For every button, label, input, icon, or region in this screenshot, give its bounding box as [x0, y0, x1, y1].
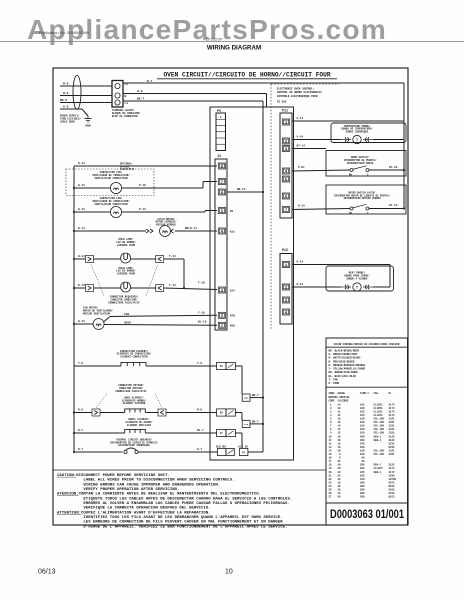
svg-text:20 20 245: 20 20 245 SEW-1 3172: [329, 471, 396, 474]
svg-text:O-7: O-7: [78, 429, 83, 432]
svg-text:O-14: O-14: [298, 204, 305, 207]
svg-text:1: 1: [220, 116, 222, 119]
svg-text:BK-7: BK-7: [252, 420, 259, 423]
meat probe RT2: [341, 286, 351, 288]
svg-text:16 8 90: 16 8 90: [329, 457, 395, 460]
svg-text:BK- BLACK/NEGRO/NOIR: BK- BLACK/NEGRO/NOIR: [329, 348, 360, 352]
svg-text:N: N: [125, 95, 127, 98]
header rule: [0, 41, 464, 43]
svg-text:DISJONCTEUR THERMIQUE: DISJONCTEUR THERMIQUE: [118, 444, 150, 447]
wire BK-14 to J3-6: [262, 191, 264, 193]
caution text block: [57, 474, 292, 530]
svg-text:T: T: [356, 286, 358, 290]
wire DLB IN to BK bus: [248, 451, 263, 453]
svg-text:V-14: V-14: [297, 135, 304, 138]
connector to lamp 2: [86, 285, 94, 292]
svg-text:W-14: W-14: [78, 255, 85, 258]
svg-text:O-7: O-7: [78, 448, 83, 451]
drawing number box: [326, 503, 408, 525]
svg-text:4 12 105 C: 4 12 105 CL1254 3173: [329, 414, 396, 417]
motor M4 fan: [93, 319, 104, 330]
svg-text:Publication No: 5995502999: Publication No: 5995502999: [39, 30, 90, 35]
J3 pin 1: [218, 322, 225, 328]
wire L1 black: [60, 102, 112, 104]
wire P11-2 to probe: [292, 139, 341, 141]
wire F10 to BK bus: [250, 423, 263, 425]
svg-text:W- WHITE/BLANCO/BLANC: W- WHITE/BLANCO/BLANC: [329, 356, 362, 360]
svg-text:O- ORANGE/NARANJA/ORANGE: O- ORANGE/NARANJA/ORANGE: [329, 363, 366, 367]
svg-text:GND: GND: [85, 125, 90, 128]
wire latch motor to J3-4: [175, 230, 217, 232]
J3 pin 6: [218, 189, 225, 195]
svg-text:7 14 150 C: 7 14 150 CXL-150 3321: [329, 425, 396, 428]
wire F2 to BK bus: [250, 397, 263, 399]
svg-text:Y- YELLOW/AMARILLO/JAUNE: Y- YELLOW/AMARILLO/JAUNE: [329, 367, 366, 371]
svg-text:DLB IN: DLB IN: [239, 445, 249, 448]
svg-text:J3: J3: [217, 154, 221, 158]
svg-text:ELEMENT CUISSON: ELEMENT CUISSON: [123, 402, 146, 405]
wire P12-2 to meat probe: [292, 286, 341, 288]
ground: [87, 116, 89, 119]
svg-text:Y-8: Y-8: [197, 362, 202, 365]
wire to thermal breaker: [73, 451, 75, 453]
svg-text:INTERRUPTEUR MOTEUR VERROU: INTERRUPTEUR MOTEUR VERROU: [343, 197, 381, 200]
svg-text:P-GY: P-GY: [298, 166, 305, 169]
electronic oven control board outline: [210, 107, 294, 460]
svg-text:LABEL ALL WIRES PRIOR TO DISCO: LABEL ALL WIRES PRIOR TO DISCONNECTION W…: [57, 479, 235, 483]
svg-text:CODE GAUGE TEMP,C: CODE GAUGE TEMP,C CSA UL: [329, 392, 393, 395]
wire to oven lamp 2: [73, 287, 75, 289]
svg-text:R-7: R-7: [147, 80, 153, 83]
svg-text:8 12 150 C: 8 12 150 CXL-150 3321: [329, 428, 396, 431]
J3 pin 4: [218, 228, 225, 234]
svg-text:O-14: O-14: [297, 283, 304, 286]
wire lamp 1 to junction: [164, 258, 184, 260]
svg-text:14 20 150: 14 20 150 CXL-150 3321: [329, 449, 396, 452]
caution separator: [53, 469, 326, 471]
wire bake element to relay: [166, 412, 217, 414]
svg-text:23 16 200: 23 16 200 5673: [329, 481, 396, 484]
motor M2 convection fan: [110, 206, 121, 217]
wire broil element to relay: [145, 432, 216, 434]
svg-text:R- RED/ROJO/ROUGE: R- RED/ROJO/ROUGE: [329, 359, 355, 363]
svg-text:WIRING SPECIAL: WIRING SPECIAL: [329, 396, 351, 399]
door switch S1: [350, 169, 353, 172]
svg-text:P- PINK: P- PINK: [329, 382, 340, 385]
thermal circuit breaker: [124, 450, 127, 453]
svg-text:CABLE HOSE: CABLE HOSE: [60, 120, 76, 123]
wire W-8 neutral into board: [123, 93, 267, 95]
svg-text:11 16 200: 11 16 200 SEW-1 3122: [329, 439, 396, 442]
fan motor low speed wire to J3-2: [104, 317, 111, 323]
svg-text:24 18 200: 24 18 200 8512: [329, 485, 396, 488]
wire P12-1 to meat probe: [292, 264, 390, 266]
svg-text:P6: P6: [217, 109, 221, 113]
svg-text:W-8: W-8: [137, 90, 143, 93]
svg-text:ERRORES AL VOLVER A ENSAMBLAR: ERRORES AL VOLVER A ENSAMBLAR LOS CABLES…: [57, 502, 290, 506]
svg-text:GY-14: GY-14: [389, 204, 398, 207]
svg-text:9 12 150 C: 9 12 150 CXL-150 3321: [329, 432, 396, 435]
svg-text:COLOR CODING/CODIGO DE COLORES: COLOR CODING/CODIGO DE COLORES/CODE COUL…: [334, 342, 400, 346]
svg-text:L2: L2: [125, 83, 129, 86]
svg-text:W-14: W-14: [78, 208, 85, 211]
EOC dashed boundary: [270, 84, 272, 330]
wire broil relay down to DLB: [235, 432, 242, 434]
wire to fan motor: [73, 323, 75, 325]
P12 pin 3: [282, 297, 289, 303]
svg-text:1 14 105 C: 1 14 105 CL1251 3173: [329, 403, 396, 406]
svg-text:3 11 105 C: 3 11 105 CL1251 3173: [329, 410, 396, 413]
svg-text:BK-7: BK-7: [252, 394, 259, 397]
wire to latch motor: [73, 230, 75, 232]
svg-text:BL- BLUE/AZUL/BLEU: BL- BLUE/AZUL/BLEU: [329, 374, 357, 378]
P11 pin 2: [282, 138, 289, 144]
meat probe enclosure: [326, 266, 394, 291]
wire lamps to J3-3: [183, 287, 185, 289]
P11 pin 3: [282, 146, 289, 152]
broil element: [125, 429, 146, 433]
svg-text:T-14: T-14: [169, 284, 176, 287]
svg-text:MOTEUR VERROU: MOTEUR VERROU: [156, 224, 176, 227]
svg-text:21 22 105: 21 22 105 3298: [329, 474, 396, 477]
svg-text:27 90 200: 27 90 200 8513: [329, 496, 396, 499]
svg-text:ATENCION:CORTAR LA CORRIENTE A: ATENCION:CORTAR LA CORRIENTE ANTES DE RE…: [57, 493, 261, 497]
P11 pin 4: [282, 168, 289, 174]
terminal block TB: [112, 81, 123, 108]
svg-text:INTERRUPTEUR PORTE: INTERRUPTEUR PORTE: [346, 162, 374, 165]
wire P11-4 to door switch: [292, 170, 350, 171]
J3 pin 8: [218, 163, 225, 169]
P11 pin 5: [282, 176, 289, 182]
svg-text:Y-8: Y-8: [78, 362, 83, 365]
svg-text:LES ERREURS DE CONNECTION DE F: LES ERREURS DE CONNECTION DE FILS PEUVEN…: [57, 521, 283, 525]
svg-text:T-14: T-14: [169, 255, 176, 258]
svg-text:BR- BROWN/CAFE/BRUN: BR- BROWN/CAFE/BRUN: [329, 370, 359, 374]
P12 pin 2: [282, 284, 289, 290]
svg-text:18 10 200: 18 10 200 SEW-1 3122: [329, 464, 396, 467]
svg-text:VERIFIQUE LA CORRECTA OPERACIO: VERIFIQUE LA CORRECTA OPERACION DESPUES …: [57, 507, 211, 511]
svg-text:GY-14: GY-14: [297, 145, 306, 148]
J3 pin 5: [218, 208, 225, 214]
wire door switch to L2 feed: [369, 169, 404, 171]
svg-text:ELEMENT GRILLOIR: ELEMENT GRILLOIR: [127, 424, 152, 427]
svg-text:P11: P11: [282, 109, 288, 113]
svg-text:P-16: P-16: [139, 184, 146, 187]
svg-text:K9: K9: [230, 210, 234, 213]
fan motor high speed wire to J3-1: [104, 324, 217, 327]
wire relay to fuse F2: [235, 365, 242, 367]
connector from lamp 2: [156, 285, 164, 292]
P12 pin 1: [282, 262, 289, 268]
svg-text:G-8: G-8: [63, 106, 69, 109]
svg-text:WIRING DIAGRAM: WIRING DIAGRAM: [207, 45, 261, 52]
temperature probe RT1: [341, 139, 351, 141]
svg-text:BK-7: BK-7: [137, 98, 144, 101]
svg-text:L1: L1: [125, 102, 129, 105]
svg-text:K11: K11: [230, 230, 235, 233]
svg-text:LUMIERE FOUR: LUMIERE FOUR: [117, 273, 136, 276]
svg-text:BK-8: BK-8: [60, 99, 67, 102]
svg-text:V-14: V-14: [297, 117, 304, 120]
svg-text:CONTROLE ELECTRONIQUE POUR: CONTROLE ELECTRONIQUE POUR: [277, 95, 318, 98]
wire P11-7 to latch switch: [292, 209, 350, 210]
wire to bake element: [73, 411, 75, 413]
svg-text:T- TAN: T- TAN: [329, 378, 339, 381]
motor M1 convection fan: [110, 182, 121, 193]
svg-text:K14: K14: [230, 289, 235, 292]
svg-text:BR/W-14: BR/W-14: [185, 226, 197, 230]
motor switch latch enclosure: [326, 185, 406, 214]
wire to convection fan 1: [73, 187, 75, 189]
wire to convection fan 2: [73, 211, 75, 213]
svg-text:2 10 105 C: 2 10 105 CL1251 3173: [329, 407, 396, 410]
svg-text:10 16 200: 10 16 200 SEW-1 3122: [329, 435, 396, 438]
svg-text:BLOC DE CONNEXION: BLOC DE CONNEXION: [112, 115, 138, 118]
wire R-7 L2 feed to right side: [123, 82, 404, 84]
svg-text:MOTEUR VENTILATEUR: MOTEUR VENTILATEUR: [83, 312, 111, 315]
wire L2 red: [60, 85, 112, 87]
svg-text:CONNECTEUR FACULTATIF: CONNECTEUR FACULTATIF: [108, 301, 140, 304]
svg-text:12 18 245: 12 18 245 5232: [329, 442, 396, 445]
convection element: [121, 362, 146, 366]
svg-text:T-16: T-16: [198, 281, 205, 284]
svg-text:VENTILATEUR CONVECTION: VENTILATEUR CONVECTION: [94, 203, 128, 206]
wire neutral white: [60, 95, 112, 97]
P11 pin 7: [282, 207, 289, 213]
svg-text:VERIFY PROPER OPERATION AFTER: VERIFY PROPER OPERATION AFTER SERVICING.: [57, 488, 179, 492]
J3 pin 2: [218, 312, 225, 318]
svg-text:ETIQUETE TODOS LOS CABLES ANTE: ETIQUETE TODOS LOS CABLES ANTES DE DESCO…: [57, 497, 292, 501]
svg-text:6 16 150 C: 6 16 150 CXL-150 3321: [329, 421, 396, 424]
neutral bus W-14: [73, 166, 75, 452]
svg-text:W-14: W-14: [78, 162, 85, 165]
fuse F10: [242, 420, 250, 427]
svg-text:SONDE THERMIQUE: SONDE THERMIQUE: [346, 131, 369, 134]
wire convection fan 1 to J3-7: [122, 187, 203, 189]
svg-text:CODE CALIBRE: CODE CALIBRE: [329, 400, 349, 403]
svg-text:W-14: W-14: [78, 227, 85, 230]
latch motor plug: [146, 229, 153, 233]
svg-text:W-8: W-8: [63, 92, 69, 95]
svg-text:VENTILATEUR CONVECTION: VENTILATEUR CONVECTION: [94, 177, 128, 180]
svg-text:22 22 150: 22 22 150 10798: [329, 478, 397, 481]
svg-text:CONNECTEUR FACULTATIF: CONNECTEUR FACULTATIF: [115, 390, 147, 393]
svg-text:ELECTRONIC OVEN CONTROL/: ELECTRONIC OVEN CONTROL/: [277, 87, 315, 91]
power cord strain relief: [73, 75, 81, 109]
svg-text:06/13: 06/13: [38, 569, 56, 576]
svg-text:DLB OUT: DLB OUT: [216, 445, 227, 448]
J3 pin 7: [218, 179, 225, 185]
svg-text:LOW: LOW: [124, 313, 129, 316]
relay K3 broil: [217, 429, 226, 436]
relay K2 bake: [217, 409, 226, 416]
svg-text:ELEMENT CONVECTION: ELEMENT CONVECTION: [120, 356, 148, 359]
P11 pin 1: [282, 119, 289, 125]
svg-text:ES 500: ES 500: [277, 101, 287, 104]
svg-text:R-8: R-8: [63, 83, 69, 86]
svg-text:17 62 90: 17 62 90: [329, 460, 395, 463]
svg-text:BK-14: BK-14: [237, 188, 246, 191]
diagram border frame: [53, 68, 408, 525]
connector from lamp 1: [156, 256, 164, 263]
svg-text:P12: P12: [282, 248, 288, 252]
svg-text:26 14 200: 26 14 200 2512: [329, 492, 396, 495]
svg-text:WIRING ERRORS CAN CAUSE IMPROP: WIRING ERRORS CAN CAUSE IMPROPER AND DAN…: [57, 483, 220, 487]
svg-text:R-8: R-8: [78, 408, 83, 411]
bake element: [125, 409, 146, 413]
svg-text:13 16 250: 13 16 250 5242: [329, 446, 396, 449]
svg-text:15 8 150: 15 8 150 CXL-150 3321: [329, 453, 396, 456]
svg-text:O-7: O-7: [197, 448, 202, 451]
svg-text:D'USAGE DE L'APPAREIL. VERIFIE: D'USAGE DE L'APPAREIL. VERIFIEZ LE BON F…: [57, 524, 287, 529]
svg-text:IDENTIFIEZ TOUS LES FILS AVANT: IDENTIFIEZ TOUS LES FILS AVANT DE LES DE…: [57, 515, 283, 520]
svg-text:19 20 105: 19 20 105 CL1254 3173: [329, 467, 396, 470]
svg-text:W-14: W-14: [78, 284, 85, 287]
svg-text:W-14: W-14: [78, 320, 85, 323]
svg-text:P-14: P-14: [139, 208, 146, 211]
bake element connector left: [92, 409, 100, 416]
fuse F2: [242, 394, 250, 401]
svg-text:CONTROL DE HORNO ELECTRONICO/: CONTROL DE HORNO ELECTRONICO/: [277, 90, 323, 94]
svg-text:25 16 200: 25 16 200 2512: [329, 489, 396, 492]
lamp L2 oven: [121, 282, 131, 292]
motor M3 latch: [160, 226, 171, 237]
temperature probe enclosure: [331, 123, 406, 143]
wire breaker to DLB OUT: [138, 451, 217, 453]
svg-text:5 16 150 C: 5 16 150 CXL-150 3321: [329, 418, 396, 421]
svg-text:OVEN CIRCUIT//CIRCUITO DE HORN: OVEN CIRCUIT//CIRCUITO DE HORNO//CIRCUIT…: [163, 72, 330, 79]
wire P11-1 to temperature probe: [292, 120, 404, 122]
wire relay to fuse F10: [235, 412, 242, 414]
bake element connector right: [158, 409, 166, 416]
svg-text:BL-16: BL-16: [198, 321, 207, 324]
svg-text:SONDE A VIANDE: SONDE A VIANDE: [346, 277, 368, 280]
svg-text:FEF352SP: FEF352SP: [203, 36, 223, 41]
L2 feed down right side: [403, 83, 405, 209]
svg-text:K7B: K7B: [230, 315, 235, 318]
wire to oven lamp 1: [73, 258, 75, 260]
svg-text:BL-7: BL-7: [197, 429, 204, 432]
wire ground green: [60, 108, 82, 110]
wire convection element to relay: [146, 365, 217, 367]
P12 pin 4: [282, 309, 289, 315]
wire P11-3 GY-14: [292, 148, 326, 150]
wire W-14 to J3-8: [74, 165, 217, 167]
P11 pin 6: [282, 193, 289, 199]
latch switch S2: [350, 207, 353, 210]
lamp L1 oven: [121, 253, 131, 263]
svg-text:K5B: K5B: [230, 325, 235, 328]
svg-text:GY-20: GY-20: [389, 166, 398, 169]
svg-text:D0003063 01/001: D0003063 01/001: [330, 509, 404, 521]
connector to lamp 1: [86, 256, 94, 263]
svg-text:HIGH: HIGH: [124, 321, 131, 324]
wire BK-7 L1 bus: [123, 100, 263, 102]
svg-text:10: 10: [225, 569, 233, 576]
wire to convection element: [74, 365, 121, 367]
color code table: [326, 338, 408, 503]
wire to broil element: [73, 432, 75, 434]
svg-text:ATTENTION:COUPEZ L'ALIMENTATIO: ATTENTION:COUPEZ L'ALIMENTATION AVANT D'…: [57, 510, 211, 515]
wire convection fan 2 to J3-5: [122, 211, 205, 213]
relay K1 convection: [217, 362, 226, 369]
svg-text:G- GREEN/VERDE/VERT: G- GREEN/VERDE/VERT: [329, 352, 359, 356]
svg-text:W-14: W-14: [78, 184, 85, 187]
wire latch switch to L2 feed: [369, 208, 404, 210]
svg-text:T: T: [356, 139, 358, 143]
J3 pin 3: [218, 287, 225, 293]
svg-text:CAUTION:DISCONNECT POWER BEFOR: CAUTION:DISCONNECT POWER BEFORE SERVICIN…: [57, 474, 170, 478]
svg-text:LUMIERE FOUR: LUMIERE FOUR: [117, 244, 136, 247]
door switch enclosure: [326, 151, 406, 177]
svg-text:R-8: R-8: [197, 408, 202, 411]
svg-text:Y-16: Y-16: [198, 312, 205, 315]
optional dashed box convection fan: [66, 169, 154, 196]
svg-text:O-14: O-14: [297, 260, 304, 263]
svg-text:F10: F10: [244, 423, 249, 426]
